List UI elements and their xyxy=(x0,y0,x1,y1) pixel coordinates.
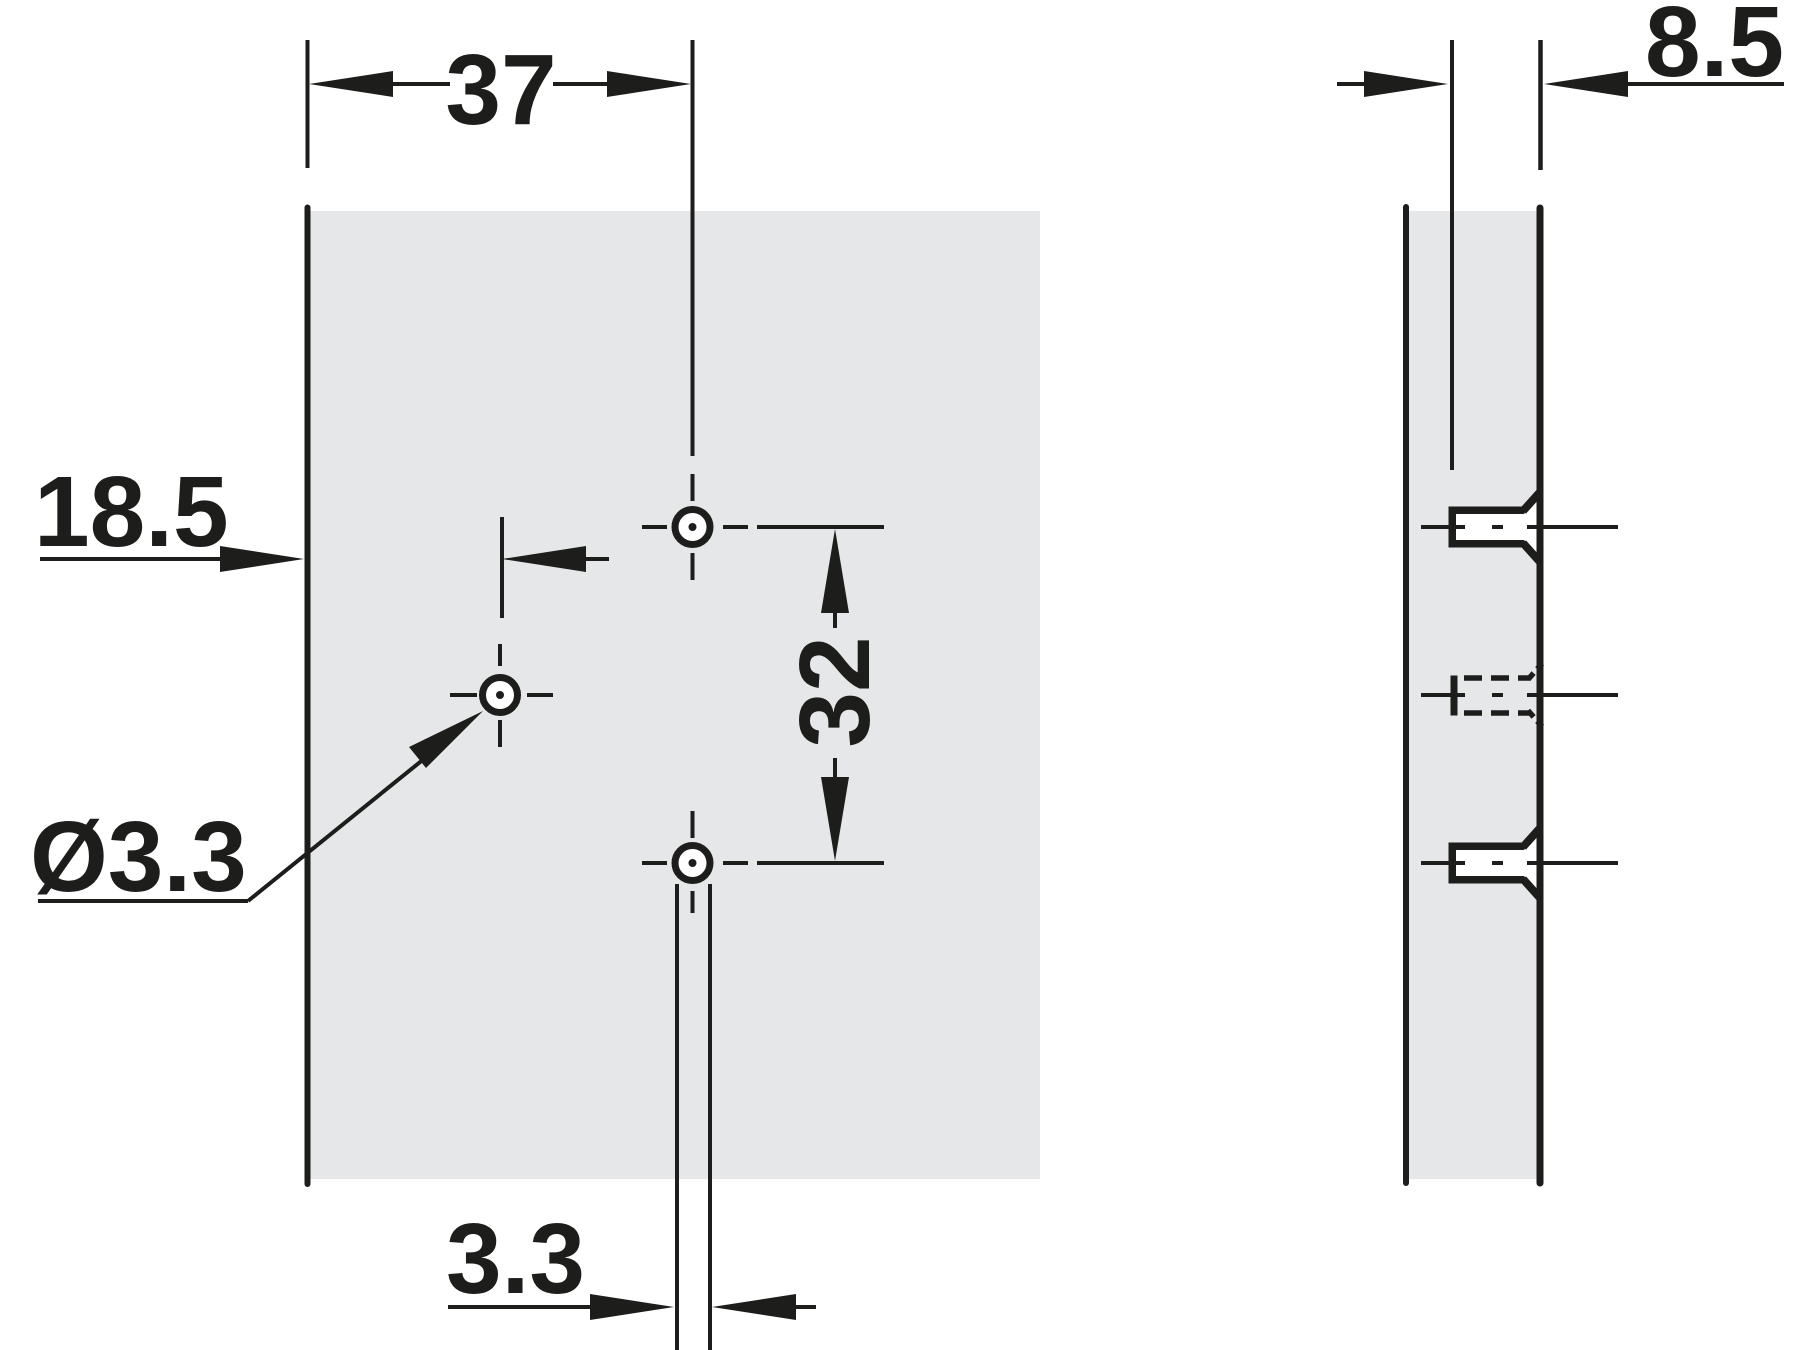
svg-text:Ø3.3: Ø3.3 xyxy=(30,801,247,913)
dim 3.3: right arrow xyxy=(712,1294,796,1320)
leader arrow for diameter 3.3 xyxy=(409,711,483,768)
hole C (bottom right) centerline dashes xyxy=(642,861,667,865)
dim 3.3: left arrow xyxy=(448,1305,594,1309)
side panel left edge line xyxy=(1403,207,1409,1183)
dim 37 / hole centerline (vertical, top) xyxy=(691,40,695,456)
dim 18.5: line and arrow to panel edge xyxy=(40,557,225,561)
dim 32: up arrow xyxy=(821,529,849,613)
dim 18.5: extension line at middle-hole centerline xyxy=(500,517,504,618)
dim 18.5: counter arrow at hole centerline xyxy=(502,546,586,572)
svg-text:37: 37 xyxy=(445,34,556,146)
countersink flare edges hole C xyxy=(1523,828,1540,898)
hole B (middle left) centerline dashes xyxy=(450,693,477,697)
dim 32: down arrow xyxy=(821,777,849,861)
countersunk hole A (side view, top) xyxy=(1449,497,1537,557)
dim 8.5: hole-bottom extension line xyxy=(1450,40,1454,470)
dim 37: left arrow xyxy=(309,71,393,97)
leader line for diameter 3.3 xyxy=(38,899,248,903)
dim 37: right arrow xyxy=(607,71,691,97)
countersunk hole C centerline xyxy=(1421,861,1618,865)
side panel right face line xyxy=(1537,208,1544,1183)
side panel (gray) xyxy=(1406,211,1540,1179)
countersunk hole C (side view, bottom) xyxy=(1449,833,1537,893)
hole A (top right) circle xyxy=(675,510,710,545)
panel face (front view, gray) xyxy=(310,211,1040,1179)
dim 8.5: right arrow xyxy=(1544,71,1628,97)
hidden hole B centerline xyxy=(1421,693,1618,697)
dim 8.5: left arrow xyxy=(1337,82,1371,86)
hole A (top right) centerline dashes xyxy=(642,525,667,529)
dim 32: top reference line xyxy=(757,525,884,529)
dim 37: left extension line xyxy=(306,40,310,168)
svg-text:18.5: 18.5 xyxy=(34,456,229,568)
countersunk hole A centerline xyxy=(1421,525,1618,529)
svg-text:8.5: 8.5 xyxy=(1645,0,1784,98)
dim 32: bottom reference line xyxy=(757,861,884,865)
hidden hole B (side view, middle, dashed) xyxy=(1454,664,1542,727)
svg-text:3.3: 3.3 xyxy=(446,1203,585,1315)
hole C (bottom right) circle xyxy=(675,846,710,881)
panel front edge (thick vertical line, front view) xyxy=(305,208,311,1185)
dim 8.5: face extension line xyxy=(1538,40,1543,170)
hole B (middle left) circle xyxy=(483,678,518,713)
dim 3.3: hole edge extension lines xyxy=(675,884,679,1350)
countersink flare edges hole A xyxy=(1523,492,1540,562)
svg-text:32: 32 xyxy=(779,636,891,747)
